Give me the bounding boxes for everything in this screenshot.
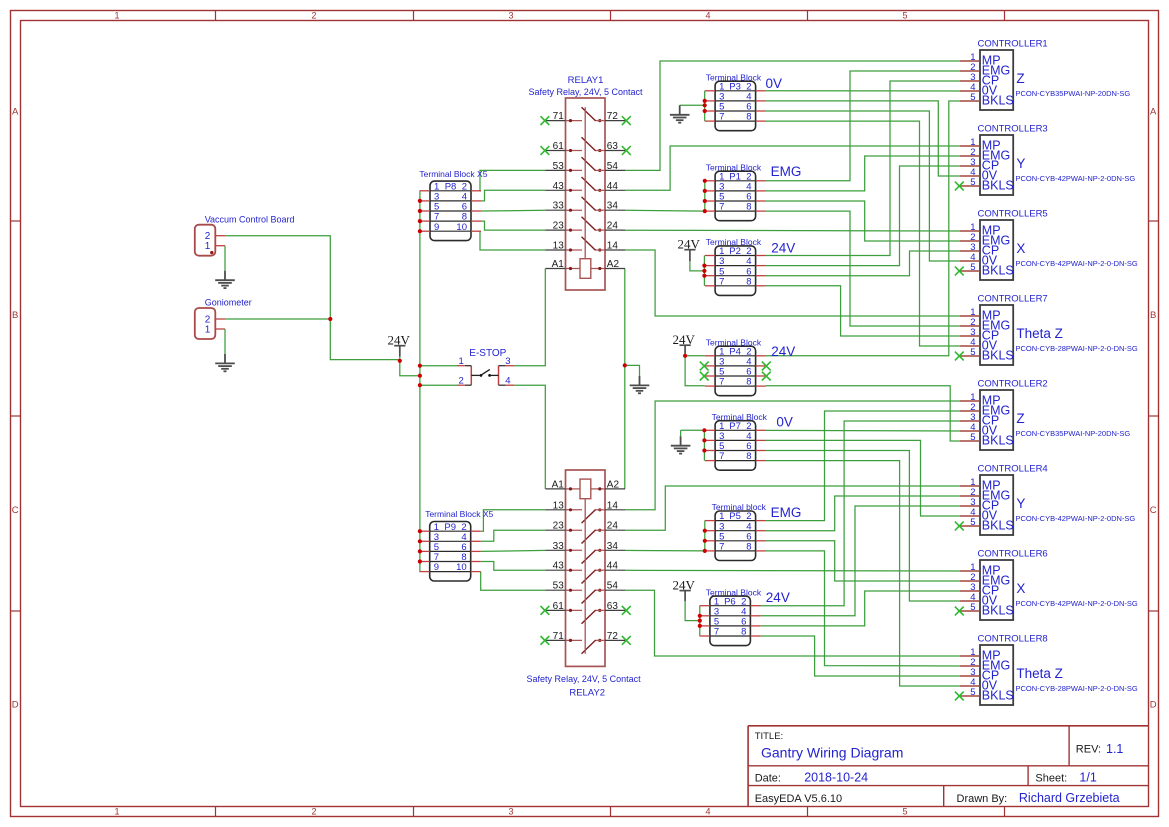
svg-text:B: B — [1150, 310, 1156, 321]
svg-text:CONTROLLER3: CONTROLLER3 — [978, 124, 1048, 135]
svg-text:9: 9 — [434, 562, 439, 573]
svg-text:A2: A2 — [607, 259, 620, 270]
svg-text:P8: P8 — [445, 181, 457, 192]
svg-text:Vaccum Control Board: Vaccum Control Board — [205, 214, 295, 224]
svg-text:CONTROLLER1: CONTROLLER1 — [978, 39, 1048, 50]
svg-text:Gantry Wiring Diagram: Gantry Wiring Diagram — [761, 745, 903, 761]
svg-text:Terminal Block: Terminal Block — [706, 237, 762, 247]
svg-text:5: 5 — [970, 262, 975, 273]
svg-text:A2: A2 — [607, 479, 620, 490]
svg-text:5: 5 — [970, 347, 975, 358]
svg-text:BKLS: BKLS — [982, 93, 1014, 107]
svg-text:5: 5 — [970, 177, 975, 188]
svg-text:D: D — [1150, 700, 1157, 711]
svg-text:Richard Grzebieta: Richard Grzebieta — [1019, 791, 1120, 805]
svg-text:24: 24 — [607, 221, 619, 232]
svg-text:8: 8 — [746, 542, 751, 553]
svg-text:2: 2 — [459, 376, 464, 387]
svg-text:Z: Z — [1016, 71, 1024, 86]
svg-text:3: 3 — [508, 807, 513, 817]
svg-text:CONTROLLER7: CONTROLLER7 — [978, 294, 1048, 305]
svg-text:7: 7 — [719, 451, 724, 462]
svg-text:14: 14 — [607, 500, 619, 511]
svg-text:7: 7 — [714, 627, 719, 638]
svg-text:CONTROLLER5: CONTROLLER5 — [978, 209, 1048, 220]
svg-text:61: 61 — [553, 601, 565, 612]
svg-text:7: 7 — [719, 202, 724, 213]
svg-text:72: 72 — [607, 631, 619, 642]
svg-text:0V: 0V — [766, 76, 783, 91]
svg-text:PCON-CYB-28PWAI-NP-2-0-DN-SG: PCON-CYB-28PWAI-NP-2-0-DN-SG — [1016, 684, 1138, 693]
svg-text:CONTROLLER2: CONTROLLER2 — [978, 379, 1048, 390]
svg-text:REV:: REV: — [1076, 744, 1101, 756]
svg-text:A: A — [1150, 107, 1157, 118]
svg-text:Terminal Block X5: Terminal Block X5 — [419, 169, 487, 179]
svg-text:63: 63 — [607, 141, 619, 152]
svg-text:P5: P5 — [729, 511, 741, 522]
svg-text:23: 23 — [553, 221, 565, 232]
svg-text:Terminal Block: Terminal Block — [706, 162, 762, 172]
svg-text:1/1: 1/1 — [1079, 771, 1096, 785]
svg-text:Y: Y — [1016, 496, 1025, 511]
svg-text:P1: P1 — [729, 171, 741, 182]
svg-text:7: 7 — [719, 542, 724, 553]
svg-text:PCON-CYB-42PWAI-NP-2-0DN-SG: PCON-CYB-42PWAI-NP-2-0DN-SG — [1016, 174, 1136, 183]
svg-text:53: 53 — [553, 161, 565, 172]
svg-text:24V: 24V — [766, 590, 790, 605]
svg-text:34: 34 — [607, 541, 619, 552]
svg-text:71: 71 — [553, 111, 565, 122]
svg-text:9: 9 — [434, 222, 439, 233]
svg-text:P2: P2 — [729, 246, 741, 257]
svg-text:10: 10 — [456, 562, 467, 573]
svg-text:24V: 24V — [771, 344, 795, 359]
svg-text:1: 1 — [205, 325, 211, 336]
svg-text:Terminal Block X5: Terminal Block X5 — [425, 509, 493, 519]
svg-text:5: 5 — [970, 687, 975, 698]
svg-text:PCON-CYB35PWAI-NP-20DN-SG: PCON-CYB35PWAI-NP-20DN-SG — [1016, 429, 1131, 438]
svg-text:5: 5 — [970, 92, 975, 103]
svg-text:8: 8 — [746, 276, 751, 287]
svg-text:Sheet:: Sheet: — [1035, 772, 1067, 784]
svg-text:BKLS: BKLS — [982, 263, 1014, 277]
svg-text:71: 71 — [553, 631, 565, 642]
svg-text:BKLS: BKLS — [982, 518, 1014, 532]
svg-text:1.1: 1.1 — [1106, 742, 1123, 756]
svg-text:Goniometer: Goniometer — [205, 298, 252, 308]
svg-text:2018-10-24: 2018-10-24 — [804, 771, 868, 785]
svg-text:Y: Y — [1016, 156, 1025, 171]
svg-text:Terminal block: Terminal block — [712, 502, 767, 512]
svg-text:10: 10 — [456, 222, 467, 233]
svg-text:BKLS: BKLS — [982, 433, 1014, 447]
svg-text:Theta Z: Theta Z — [1016, 326, 1063, 341]
svg-text:1: 1 — [114, 807, 119, 817]
svg-text:2: 2 — [311, 807, 316, 817]
svg-text:54: 54 — [607, 161, 619, 172]
svg-text:1: 1 — [114, 11, 119, 21]
svg-text:0V: 0V — [776, 414, 793, 429]
svg-text:RELAY1: RELAY1 — [568, 75, 604, 86]
svg-text:A: A — [12, 107, 19, 118]
svg-text:Terminal Block: Terminal Block — [712, 412, 768, 422]
svg-text:P3: P3 — [729, 81, 741, 92]
svg-text:A1: A1 — [552, 259, 565, 270]
svg-text:EMG: EMG — [771, 505, 802, 520]
svg-text:C: C — [1150, 505, 1157, 516]
svg-text:5: 5 — [902, 807, 907, 817]
svg-text:PCON-CYB-42PWAI-NP-2-0DN-SG: PCON-CYB-42PWAI-NP-2-0DN-SG — [1016, 514, 1136, 523]
svg-text:P6: P6 — [724, 596, 736, 607]
svg-text:7: 7 — [719, 112, 724, 123]
svg-text:A1: A1 — [552, 479, 565, 490]
svg-text:Z: Z — [1016, 411, 1024, 426]
svg-text:Date:: Date: — [755, 772, 781, 784]
svg-text:8: 8 — [746, 377, 751, 388]
svg-text:PCON-CYB-28PWAI-NP-2-0-DN-SG: PCON-CYB-28PWAI-NP-2-0-DN-SG — [1016, 344, 1138, 353]
svg-text:23: 23 — [553, 521, 565, 532]
svg-text:BKLS: BKLS — [982, 178, 1014, 192]
svg-text:EMG: EMG — [771, 164, 802, 179]
svg-text:8: 8 — [741, 627, 746, 638]
svg-text:TITLE:: TITLE: — [755, 731, 784, 742]
svg-text:43: 43 — [553, 181, 565, 192]
svg-text:BKLS: BKLS — [982, 348, 1014, 362]
svg-text:53: 53 — [553, 581, 565, 592]
svg-text:CONTROLLER6: CONTROLLER6 — [978, 549, 1048, 560]
svg-text:BKLS: BKLS — [982, 688, 1014, 702]
svg-text:Theta Z: Theta Z — [1016, 666, 1063, 681]
svg-text:RELAY2: RELAY2 — [569, 688, 605, 699]
svg-text:Drawn By:: Drawn By: — [957, 793, 1008, 805]
svg-text:5: 5 — [902, 11, 907, 21]
svg-text:E-STOP: E-STOP — [469, 348, 506, 359]
svg-text:Terminal Block: Terminal Block — [706, 72, 762, 82]
svg-text:7: 7 — [719, 377, 724, 388]
svg-text:CONTROLLER8: CONTROLLER8 — [978, 634, 1048, 645]
svg-text:2: 2 — [311, 11, 316, 21]
svg-text:8: 8 — [746, 112, 751, 123]
svg-text:33: 33 — [553, 541, 565, 552]
svg-text:7: 7 — [719, 276, 724, 287]
svg-text:PCON-CYB35PWAI-NP-20DN-SG: PCON-CYB35PWAI-NP-20DN-SG — [1016, 89, 1131, 98]
svg-text:5: 5 — [970, 602, 975, 613]
svg-text:61: 61 — [553, 141, 565, 152]
svg-text:13: 13 — [553, 500, 565, 511]
svg-text:8: 8 — [746, 202, 751, 213]
svg-text:4: 4 — [505, 376, 510, 387]
svg-text:X: X — [1016, 581, 1025, 596]
svg-text:5: 5 — [970, 517, 975, 528]
svg-text:X: X — [1016, 241, 1025, 256]
svg-text:44: 44 — [607, 181, 619, 192]
svg-text:P4: P4 — [729, 346, 741, 357]
svg-text:43: 43 — [553, 561, 565, 572]
svg-text:CONTROLLER4: CONTROLLER4 — [978, 464, 1048, 475]
svg-text:14: 14 — [607, 241, 619, 252]
svg-text:Safety Relay, 24V, 5 Contact: Safety Relay, 24V, 5 Contact — [527, 674, 642, 684]
svg-text:3: 3 — [508, 11, 513, 21]
svg-text:4: 4 — [705, 11, 710, 21]
svg-text:PCON-CYB-42PWAI-NP-2-0-DN-SG: PCON-CYB-42PWAI-NP-2-0-DN-SG — [1016, 599, 1138, 608]
svg-text:Terminal Block: Terminal Block — [706, 337, 762, 347]
svg-text:8: 8 — [746, 451, 751, 462]
svg-text:P7: P7 — [729, 421, 741, 432]
svg-text:72: 72 — [607, 111, 619, 122]
svg-text:1: 1 — [205, 241, 211, 252]
svg-text:D: D — [12, 700, 19, 711]
svg-text:BKLS: BKLS — [982, 603, 1014, 617]
svg-text:Safety Relay, 24V, 5 Contact: Safety Relay, 24V, 5 Contact — [528, 87, 643, 97]
svg-text:24: 24 — [607, 521, 619, 532]
svg-text:PCON-CYB-42PWAI-NP-2-0-DN-SG: PCON-CYB-42PWAI-NP-2-0-DN-SG — [1016, 259, 1138, 268]
svg-text:1: 1 — [459, 356, 464, 367]
svg-text:44: 44 — [607, 561, 619, 572]
svg-text:33: 33 — [553, 201, 565, 212]
svg-text:54: 54 — [607, 581, 619, 592]
svg-text:63: 63 — [607, 601, 619, 612]
svg-text:EasyEDA V5.6.10: EasyEDA V5.6.10 — [755, 793, 842, 805]
svg-text:24V: 24V — [771, 241, 795, 256]
svg-text:5: 5 — [970, 432, 975, 443]
svg-text:P9: P9 — [444, 522, 456, 533]
svg-text:C: C — [12, 505, 19, 516]
svg-text:B: B — [12, 310, 18, 321]
svg-text:13: 13 — [553, 241, 565, 252]
svg-text:Terminal Block: Terminal Block — [706, 587, 762, 597]
svg-text:34: 34 — [607, 201, 619, 212]
svg-text:4: 4 — [705, 807, 710, 817]
